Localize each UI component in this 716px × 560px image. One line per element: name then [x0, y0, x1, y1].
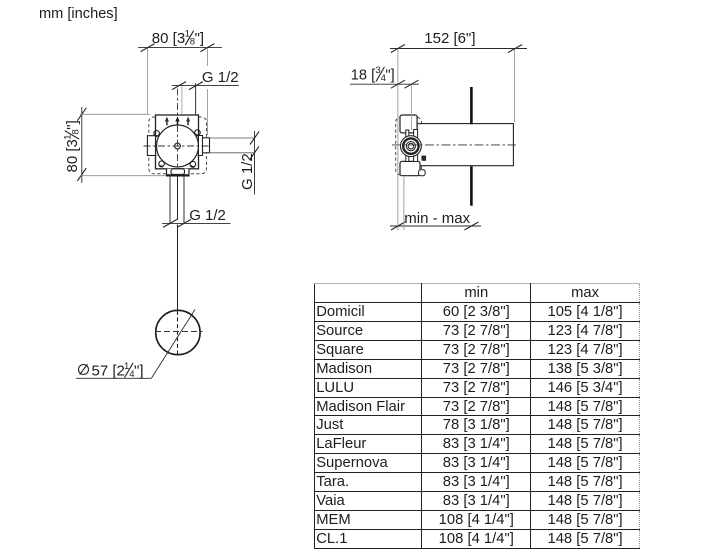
svg-text:152 [6"]: 152 [6"] — [424, 30, 475, 47]
svg-text:18 [: 18 [ — [351, 68, 375, 84]
svg-text:57 [2: 57 [2 — [92, 363, 125, 380]
svg-text:G 1/2: G 1/2 — [202, 69, 239, 86]
svg-text:G 1/2: G 1/2 — [239, 153, 256, 190]
svg-text:G 1/2: G 1/2 — [189, 207, 226, 224]
svg-text:min - max: min - max — [404, 210, 470, 227]
svg-text:"]: "] — [64, 120, 81, 130]
svg-text:80 [3: 80 [3 — [152, 30, 185, 47]
svg-text:80 [3: 80 [3 — [64, 139, 81, 172]
svg-text:"]: "] — [385, 68, 394, 84]
svg-text:"]: "] — [195, 30, 205, 47]
svg-text:"]: "] — [134, 363, 144, 380]
